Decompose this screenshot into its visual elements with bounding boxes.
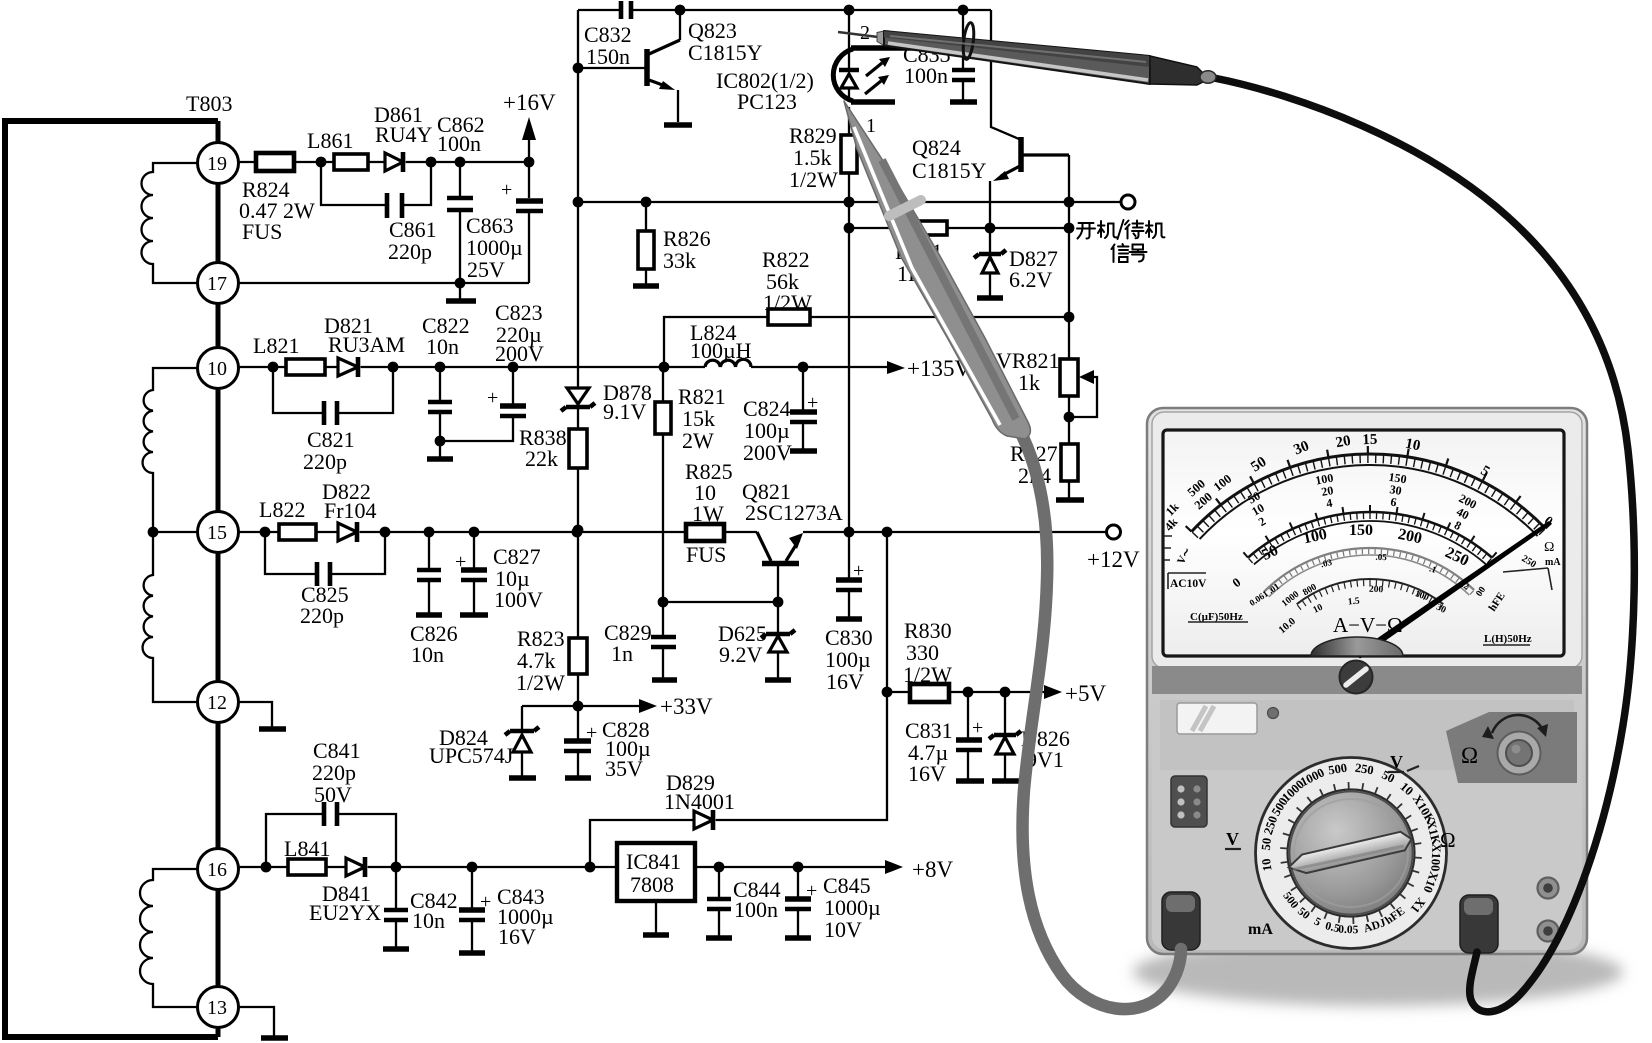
pin 15	[198, 512, 239, 553]
multimeter stripes window	[1177, 703, 1257, 734]
diode D829	[664, 770, 735, 830]
svg-text:100n: 100n	[904, 63, 948, 88]
svg-text:RU3AM: RU3AM	[328, 332, 405, 357]
wire standby rail	[578, 197, 1120, 208]
wire pin10 rail	[239, 362, 887, 373]
svg-text:FUS: FUS	[686, 542, 726, 567]
svg-text:1k: 1k	[1018, 370, 1040, 395]
capacitor C832	[584, 1, 632, 69]
multimeter indicator dot	[1268, 708, 1279, 719]
test pen (black)	[838, 22, 1216, 85]
resistor R826	[638, 202, 711, 284]
svg-text:7808: 7808	[630, 872, 674, 897]
svg-text:50V: 50V	[314, 782, 352, 807]
wire pin16 rail	[239, 862, 885, 873]
svg-text:Q824: Q824	[912, 135, 961, 160]
svg-text:10: 10	[1259, 858, 1275, 872]
ground at R827	[1056, 497, 1084, 503]
diode D821	[324, 313, 405, 377]
node +135V arrow	[887, 356, 971, 381]
capacitor C862	[437, 112, 485, 283]
resistor R831	[849, 221, 1069, 286]
test pen cable (black, to right jack)	[1214, 78, 1634, 1012]
wire Q821 collector to D625 node	[658, 597, 784, 608]
svg-text:+8V: +8V	[912, 857, 953, 882]
svg-text:10: 10	[1404, 436, 1422, 455]
svg-text:+33V: +33V	[660, 694, 713, 719]
svg-text:10V: 10V	[824, 917, 862, 942]
pin 19	[198, 143, 239, 184]
svg-text:L821: L821	[253, 333, 299, 358]
svg-text:mA: mA	[1545, 557, 1561, 568]
svg-text:100n: 100n	[437, 131, 481, 156]
svg-text:+: +	[806, 880, 817, 902]
ground at R826	[633, 283, 659, 289]
resistor R838	[519, 425, 587, 471]
svg-text:10: 10	[207, 358, 227, 380]
svg-text:+: +	[480, 891, 491, 913]
test probe (gray)	[844, 101, 1030, 439]
svg-text:C1815Y: C1815Y	[912, 158, 987, 183]
capacitor C821	[273, 367, 393, 474]
svg-text:16: 16	[207, 859, 227, 881]
pin 10	[198, 348, 239, 389]
diode D841	[309, 857, 381, 925]
multimeter dial scales	[1186, 446, 1552, 610]
svg-text:33k: 33k	[663, 248, 696, 273]
svg-text:IC841: IC841	[626, 849, 681, 874]
svg-text:220p: 220p	[300, 603, 344, 628]
svg-text:13: 13	[207, 997, 227, 1019]
wire +5V rail	[887, 687, 1044, 698]
optocoupler IC802 LED	[716, 10, 924, 137]
svg-text:0.05: 0.05	[1338, 924, 1359, 937]
svg-text:1/2W: 1/2W	[789, 167, 838, 192]
svg-text:.05: .05	[1375, 552, 1387, 563]
svg-text:16V: 16V	[826, 669, 864, 694]
pin 17	[198, 263, 239, 304]
multimeter selector knob	[1287, 792, 1414, 915]
capacitor C829	[604, 602, 676, 678]
ground at D625	[765, 677, 791, 683]
transformer winding 19-17	[142, 163, 198, 283]
resistor R825 fusible	[685, 459, 733, 567]
svg-text:150: 150	[1349, 522, 1373, 539]
inductor L821	[253, 333, 325, 375]
multimeter dial captions	[1164, 536, 1561, 645]
svg-text:15: 15	[1362, 432, 1378, 449]
ground at C826	[416, 612, 442, 618]
svg-text:10n: 10n	[411, 642, 444, 667]
ground at C862	[446, 283, 476, 301]
regulator IC841	[617, 843, 695, 901]
multimeter range ring	[1256, 758, 1447, 949]
svg-text:2: 2	[860, 22, 870, 44]
svg-text:100V: 100V	[494, 587, 543, 612]
capacitor C830	[825, 532, 873, 694]
diode D822	[322, 479, 377, 542]
svg-text:+5V: +5V	[1065, 681, 1106, 706]
ground at C831	[956, 778, 984, 784]
ground at C844	[706, 935, 732, 941]
capacitor C823	[487, 300, 544, 419]
ground at D826	[992, 778, 1019, 784]
multimeter connector block	[1171, 776, 1207, 827]
ground at C843	[459, 950, 485, 956]
ground at C830	[836, 616, 862, 622]
capacitor C826	[410, 532, 458, 667]
test probe cable (gray, to left jack)	[1019, 429, 1181, 1009]
pin 16	[198, 849, 239, 890]
svg-text:+16V: +16V	[503, 90, 556, 115]
multimeter shadow	[1133, 938, 1623, 1006]
ground at D827	[977, 295, 1003, 301]
svg-text:V: V	[1226, 829, 1239, 849]
svg-text:RU4Y: RU4Y	[375, 122, 433, 147]
resistor R821	[655, 367, 726, 602]
multimeter range ring ticks	[1280, 782, 1422, 924]
inductor L861	[307, 128, 368, 170]
svg-text:16V: 16V	[908, 761, 946, 786]
svg-text:L822: L822	[259, 497, 305, 522]
svg-text:200V: 200V	[495, 341, 544, 366]
ground at pin 13	[239, 1007, 288, 1038]
svg-text:1: 1	[866, 115, 876, 137]
svg-text:PC123: PC123	[737, 89, 797, 114]
node standby signal label (Chinese)	[1077, 220, 1165, 262]
resistor R829	[789, 107, 857, 532]
svg-text:EU2YX: EU2YX	[309, 900, 381, 925]
svg-text:Fr104: Fr104	[324, 498, 377, 523]
ground at C845	[785, 935, 811, 941]
ground at C822	[427, 441, 453, 459]
ground at D824	[509, 775, 536, 781]
ground at pin 12	[239, 702, 286, 729]
svg-text:+: +	[972, 717, 983, 739]
svg-text:+12V: +12V	[1087, 547, 1140, 572]
node +33V arrow	[578, 694, 713, 719]
wire R822 branch	[664, 317, 1069, 367]
svg-text:+: +	[487, 387, 498, 409]
svg-text:150n: 150n	[586, 44, 630, 69]
transformer winding 15-12	[143, 527, 197, 702]
svg-text:200: 200	[1369, 585, 1384, 595]
svg-text:+: +	[853, 560, 864, 582]
svg-text:C1815Y: C1815Y	[688, 40, 763, 65]
svg-text:+: +	[807, 392, 818, 414]
diode D861	[374, 102, 433, 172]
wire top rail	[578, 5, 991, 16]
multimeter zero adjust screw	[1340, 661, 1373, 694]
node +16V arrow	[503, 90, 556, 162]
capacitor C861	[321, 162, 437, 264]
multimeter body	[1147, 408, 1587, 954]
svg-text:9.1V: 9.1V	[603, 399, 647, 424]
svg-text:100n: 100n	[734, 897, 778, 922]
capacitor C863	[466, 162, 543, 283]
zener D826	[989, 692, 1070, 779]
multimeter needle hub dome	[1311, 637, 1403, 656]
multimeter panel V and ohm captions	[1225, 752, 1456, 938]
capacitor C842	[384, 867, 458, 947]
svg-text:Ω: Ω	[1544, 540, 1554, 555]
svg-text:L(H)50Hz: L(H)50Hz	[1484, 633, 1532, 645]
svg-text:6.2V: 6.2V	[1009, 267, 1053, 292]
transformer T803 body	[5, 91, 232, 1037]
transformer winding 10-15	[143, 368, 197, 532]
wire +12V branch to R830	[716, 532, 892, 820]
ground at IC841	[643, 901, 669, 935]
svg-text:220p: 220p	[388, 239, 432, 264]
resistor R830	[903, 618, 952, 702]
svg-text:L841: L841	[284, 836, 330, 861]
svg-text:+: +	[501, 179, 512, 201]
node +5V arrow	[1044, 681, 1106, 706]
svg-text:V: V	[1390, 752, 1403, 772]
capacitor C827	[455, 532, 543, 613]
wire D829 branch	[585, 820, 694, 872]
svg-text:1N4001: 1N4001	[664, 789, 735, 814]
transistor Q821	[742, 479, 843, 602]
svg-text:1/2W: 1/2W	[516, 670, 565, 695]
zener D878	[561, 380, 652, 424]
svg-text:12: 12	[207, 692, 227, 714]
ground at C833	[950, 99, 977, 105]
svg-text:+: +	[586, 722, 597, 744]
wire pin15 rail	[239, 527, 1106, 538]
multimeter left jack plug	[1162, 892, 1200, 950]
node +8V arrow	[885, 857, 953, 882]
svg-text:1/2W: 1/2W	[763, 290, 812, 315]
svg-text:200V: 200V	[743, 440, 792, 465]
svg-text:50: 50	[1259, 837, 1274, 851]
multimeter right jack plug	[1460, 895, 1498, 953]
transformer winding 16-13	[140, 869, 197, 1007]
svg-text:15: 15	[207, 522, 227, 544]
wire pin19 rail	[239, 157, 534, 289]
capacitor C833	[903, 10, 975, 100]
svg-text:FUS: FUS	[242, 219, 282, 244]
multimeter dial numbers	[1162, 432, 1557, 636]
capacitor C843	[459, 867, 554, 951]
capacitor C825	[265, 532, 385, 628]
svg-text:16V: 16V	[498, 924, 536, 949]
node +12V terminal	[1087, 525, 1140, 572]
inductor L822	[259, 497, 316, 540]
inductor L824	[690, 320, 752, 367]
svg-text:220p: 220p	[303, 449, 347, 474]
resistor R822	[762, 247, 812, 325]
svg-text:T803: T803	[186, 91, 232, 116]
svg-text:20: 20	[1334, 433, 1352, 452]
ground at C824	[790, 448, 817, 454]
capacitor C822	[422, 313, 513, 446]
svg-text:22k: 22k	[525, 446, 558, 471]
svg-text:mA: mA	[1248, 921, 1273, 938]
transistor Q824	[912, 10, 1069, 228]
svg-text:500: 500	[1327, 761, 1348, 778]
ground at C828	[565, 775, 591, 781]
svg-text:Ω: Ω	[1440, 828, 1456, 852]
multimeter range ring labels	[1259, 761, 1444, 937]
multimeter needle	[1355, 521, 1551, 659]
capacitor C844	[707, 867, 781, 936]
zener D827	[974, 228, 1058, 296]
svg-text:17: 17	[207, 273, 227, 295]
resistor R824	[239, 153, 315, 244]
zener D625	[718, 602, 795, 678]
zener D824	[429, 706, 578, 776]
pin 12	[198, 682, 239, 723]
svg-text:1.5: 1.5	[1347, 596, 1360, 607]
pin 13	[198, 987, 239, 1028]
svg-text:1n: 1n	[611, 641, 633, 666]
svg-text:10n: 10n	[412, 908, 445, 933]
capacitor C831	[905, 692, 983, 786]
svg-text:Ω: Ω	[1461, 743, 1478, 768]
svg-text:2W: 2W	[682, 428, 714, 453]
svg-text:L861: L861	[307, 128, 353, 153]
multimeter ohm adjust panel	[1446, 712, 1577, 783]
capacitor C828	[564, 717, 651, 781]
node standby terminal	[1121, 195, 1135, 209]
svg-text:1/2W: 1/2W	[903, 662, 952, 687]
capacitor C845	[785, 867, 881, 942]
svg-text:19: 19	[207, 153, 227, 175]
svg-text:25V: 25V	[467, 257, 505, 282]
svg-text:+: +	[455, 551, 466, 573]
multimeter spare jacks	[1538, 878, 1559, 942]
svg-text:1W: 1W	[692, 501, 724, 526]
svg-text:2SC1273A: 2SC1273A	[745, 500, 843, 525]
wire center vertical bus	[573, 10, 584, 776]
svg-text:10n: 10n	[426, 334, 459, 359]
ground at C829	[652, 677, 677, 683]
ground at C827	[460, 612, 488, 618]
svg-text:100µH: 100µH	[690, 338, 752, 363]
inductor L841	[284, 836, 330, 875]
svg-text:AC10V: AC10V	[1170, 578, 1207, 590]
svg-text:35V: 35V	[605, 756, 643, 781]
svg-text:9.2V: 9.2V	[719, 642, 763, 667]
ground at Q823 emitter	[664, 122, 692, 128]
ground at C842	[383, 946, 409, 952]
potentiometer VR821	[996, 348, 1097, 417]
svg-text:UPC574J: UPC574J	[429, 743, 514, 768]
resistor R827	[1010, 441, 1078, 488]
resistor R823	[516, 626, 587, 695]
capacitor C841	[266, 738, 396, 867]
transistor Q823	[578, 10, 763, 122]
svg-text:250: 250	[1354, 761, 1375, 778]
capacitor C824	[743, 367, 818, 465]
multimeter dial window	[1163, 430, 1564, 656]
wire VR821 branch	[1064, 155, 1075, 498]
